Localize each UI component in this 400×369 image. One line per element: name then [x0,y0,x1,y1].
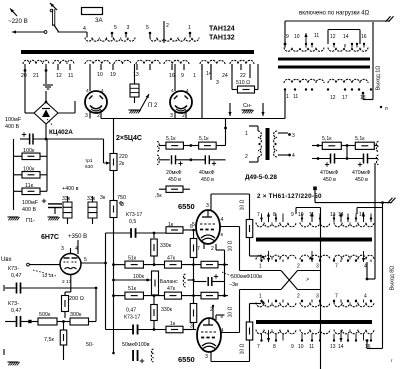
grid stopper lower [201,292,218,299]
svg-text:2: 2 [166,23,169,29]
svg-text:400 В: 400 В [5,124,19,130]
grid stopper upper [201,261,218,268]
cathode stub lower [215,315,217,320]
ТрВ1 top pins [261,214,263,223]
switch В1 upper pole [50,3,57,10]
svg-text:,5к: ,5к [155,193,162,199]
resistor 10 Ω anode upper [246,220,253,238]
svg-text:12 11: 12 11 [42,273,54,279]
svg-text:3: 3 [316,294,319,300]
ТрВ2 top pins [261,300,263,303]
svg-text:510 Ω: 510 Ω [236,80,250,86]
svg-text:5: 5 [84,257,87,263]
cap 470мк 450в a [312,158,331,160]
svg-text:50-: 50- [86,342,94,348]
svg-text:6Н7С: 6Н7С [41,234,59,241]
tube Л5 6550 lower [197,318,221,352]
svg-text:5: 5 [146,25,149,31]
svg-text:П 2: П 2 [148,103,158,109]
svg-text:−3в: −3в [229,282,238,288]
ТрВ2 top winding [256,303,296,307]
Тр1 primary winding b [150,38,199,42]
cathode stub upper [215,244,217,250]
svg-text:3: 3 [127,25,130,31]
Тр2 left wire [284,21,286,48]
Тр2 left down wire [284,90,286,119]
svg-text:9: 9 [286,34,289,40]
B+ vertical to heater rail [225,119,227,146]
ladder wires [13,139,15,210]
svg-text:3А: 3А [95,17,103,24]
svg-text:5,1к: 5,1к [322,136,332,142]
svg-text:11: 11 [309,212,314,218]
svg-text:100мF: 100мF [5,117,22,123]
svg-text:ТАН132: ТАН132 [209,35,235,42]
svg-text:2 17: 2 17 [62,279,72,285]
wire to divider [95,288,97,322]
svg-text:47к: 47к [167,286,176,292]
svg-text:450 в: 450 в [355,177,368,183]
svg-text:4: 4 [221,217,224,223]
svg-text:200 Ω: 200 Ω [69,296,84,302]
ground left [8,216,19,218]
svg-text:3: 3 [190,324,193,330]
cap 40мк 450В [204,155,206,164]
svg-text:6550: 6550 [178,355,195,364]
svg-text:6550: 6550 [178,202,195,211]
tube Л1 5Ц4С [85,91,107,113]
svg-text:9: 9 [181,73,184,79]
arrow to plug upper [10,9,17,17]
svg-text:13: 13 [133,72,139,78]
resistor grid leak upper 220к [190,239,197,258]
svg-text:40мкФ: 40мкФ [199,170,215,176]
svg-text:22: 22 [240,73,246,79]
svg-text:10 Ω: 10 Ω [240,343,246,354]
switch link [52,9,54,26]
svg-text:3: 3 [85,113,88,119]
bridge bottom wire [45,124,47,139]
svg-text:4: 4 [186,88,189,94]
svg-text:750: 750 [117,195,126,201]
svg-text:2×5Ц4С: 2×5Ц4С [116,135,142,142]
svg-text:К73-: К73- [8,266,19,272]
svg-text:5,1к: 5,1к [166,136,176,142]
choke Др1 Д49-5-0.28 [249,125,258,127]
svg-text:5,1к: 5,1к [199,136,209,142]
svg-text:Uвх: Uвх [1,257,12,263]
svg-text:12: 12 [56,73,62,79]
svg-text:2: 2 [211,246,214,252]
svg-text:6: 6 [190,224,193,230]
svg-text:2: 2 [245,154,248,160]
svg-text:33к: 33к [62,196,71,202]
svg-text:Сн-: Сн- [243,103,252,109]
svg-text:ТАН124: ТАН124 [209,26,235,33]
svg-text:7: 7 [197,246,200,252]
grid2 wire upper [220,226,240,228]
svg-text:2: 2 [297,294,300,300]
resistor 330к upper [153,233,155,238]
Тр1 secondary pins and numbers [24,64,26,70]
ТрВ1 bottom pins [261,260,263,263]
svg-text:13: 13 [330,344,336,350]
centertap brackets [296,207,321,209]
svg-text:51к: 51к [128,286,137,292]
cathode down [70,275,72,293]
svg-text:3: 3 [205,354,208,360]
down arrows heater taps [229,103,231,116]
svg-text:5: 5 [114,25,117,31]
svg-text:0,47: 0,47 [126,308,136,314]
svg-text:3: 3 [61,246,64,252]
svg-text:470мкФ: 470мкФ [352,170,370,176]
svg-text:п: п [385,106,388,112]
node 20 wire down [24,71,26,114]
svg-text:1: 1 [193,73,196,79]
resistor 7,5к [60,330,67,345]
cap 470мк 450в b [363,154,365,164]
svg-text:11: 11 [309,344,314,350]
svg-text:+350 В: +350 В [68,234,87,240]
ТрВ2 core [256,320,372,324]
hooks to output transformers [376,142,378,152]
svg-text:4: 4 [364,294,367,300]
lamp Л2 [134,64,136,84]
svg-text:5,1к: 5,1к [355,136,365,142]
svg-text:0,5: 0,5 [129,219,136,225]
svg-text:500мкФ100в: 500мкФ100в [231,274,262,280]
ТрВ1 top winding [256,223,296,227]
tube Л4 6550 upper [196,210,220,244]
svg-text:К73-17: К73-17 [124,315,140,321]
svg-text:16: 16 [169,73,175,79]
resistor 200 Ω [62,296,69,312]
rail centertap [320,208,322,369]
svg-text:Д49-5-0.28: Д49-5-0.28 [245,174,277,181]
B+ rail row [159,145,166,147]
svg-text:400 В: 400 В [22,207,36,213]
heater centertap ground [45,71,47,85]
svg-text:1: 1 [259,264,262,270]
svg-text:0,47: 0,47 [11,273,22,279]
svg-text:Выход 8Ω: Выход 8Ω [390,266,396,291]
svg-text:9: 9 [291,344,294,350]
svg-text:2: 2 [97,113,100,119]
heater rail wire [101,118,285,120]
svg-text:21: 21 [33,73,39,79]
svg-text:11: 11 [293,94,298,100]
svg-text:1: 1 [245,131,248,137]
svg-text:11: 11 [314,33,319,39]
svg-text:3: 3 [216,80,219,86]
wire switch to transformer pin 4 [58,31,88,33]
bridge right wire [58,112,75,114]
svg-text:0,47: 0,47 [11,308,22,314]
switch П2 [134,97,136,103]
svg-text:>: > [306,277,309,283]
pin mark [380,106,382,108]
Тр2 core [278,58,370,61]
svg-text:12: 12 [330,34,336,40]
svg-text:тр1: тр1 [85,158,93,164]
ground cap [48,216,59,218]
svg-text:2 × ТН61-127/220-50: 2 × ТН61-127/220-50 [257,193,322,200]
svg-text:Выход 1Ω: Выход 1Ω [376,66,382,91]
svg-text:П1-: П1- [26,218,35,224]
svg-text:100мF: 100мF [22,200,39,206]
Тр2 bracket 12-14-16 [327,30,329,45]
svg-text:330к: 330к [161,307,173,313]
svg-text:включено по нагрузки 4Ω: включено по нагрузки 4Ω [299,11,370,17]
cap 20мк 450В [159,159,170,161]
svg-text:8: 8 [273,344,276,350]
filter cap С1 100мк [22,134,26,136]
svg-text:3: 3 [316,264,319,270]
svg-text:4: 4 [101,88,104,94]
svg-text:220: 220 [119,154,128,160]
svg-text:11: 11 [68,73,73,79]
svg-text:8: 8 [221,232,224,237]
resistor grid leak lower 220к [190,304,197,323]
balance pot [152,271,159,295]
switch В1 lower pole [54,25,59,32]
svg-text:33к: 33к [87,196,96,202]
bias winding mark [151,349,153,362]
tube Л6 6Н7С [77,240,79,254]
svg-text:20мкФ: 20мкФ [166,170,182,176]
svg-text:14: 14 [338,212,344,218]
svg-text:К73-: К73- [8,301,19,307]
svg-text:7: 7 [335,294,338,300]
cathode cap upper [193,281,206,283]
Тр2 right wire to output [372,22,374,100]
svg-text:1: 1 [286,94,289,100]
svg-text:7,5к: 7,5к [44,337,54,343]
svg-text:12: 12 [330,95,336,101]
svg-text:КЦ402А: КЦ402А [49,129,73,136]
anode wire right [81,262,106,264]
resistor 750 Ω [113,171,115,201]
transformer Тр1 core [21,50,254,54]
svg-text:450 в: 450 в [168,177,181,183]
svg-text:16: 16 [359,212,365,218]
svg-text:330к: 330к [160,243,172,249]
svg-text:470мкФ: 470мкФ [320,170,338,176]
svg-text:4: 4 [171,88,174,94]
svg-text:9: 9 [291,212,294,218]
resistor 330к lower [153,296,155,305]
svg-text:10: 10 [294,34,300,40]
svg-text:14: 14 [343,34,349,40]
diode bridge КЦ402А [25,112,34,114]
svg-text:1: 1 [259,294,262,300]
svg-text:13: 13 [330,212,336,218]
plate wire lower [212,306,214,318]
resistor 510 bias winding [231,64,233,86]
svg-text:10: 10 [97,72,103,78]
terminal and ground bottom [3,285,5,291]
svg-text:7: 7 [257,344,260,350]
Тр1 primary winding a [85,38,135,42]
svg-text:7: 7 [257,212,260,218]
svg-text:10 Ω: 10 Ω [228,240,234,251]
rail from filter to ТрВ1 [374,163,376,279]
resistor 5к [166,186,183,192]
svg-text:4: 4 [292,153,295,159]
svg-text:24: 24 [222,73,228,79]
output wire 8 ohm [315,202,391,204]
svg-text:10: 10 [298,212,304,218]
svg-text:300к: 300к [70,312,82,318]
B+ junction square [313,187,317,191]
tube Л3 5Ц4С [170,91,192,113]
svg-text:2к: 2к [119,161,125,167]
svg-text:3: 3 [292,133,295,139]
ТрВ2 bottom pins [261,334,263,341]
grid2 wire lower [220,332,240,334]
svg-text:16: 16 [361,34,367,40]
svg-text:~220 В: ~220 В [8,18,28,25]
ТрВ1 core [256,238,372,242]
svg-text:3: 3 [206,203,209,209]
plate wire upper [210,194,212,211]
svg-text:50мкФ100в: 50мкФ100в [122,342,150,348]
potentiometer 220 [110,154,117,171]
svg-text:630: 630 [85,164,93,170]
svg-text:450 в: 450 в [323,177,336,183]
svg-text:14: 14 [338,344,344,350]
svg-text:10: 10 [298,344,304,350]
svg-text:10 Ω: 10 Ω [240,199,246,210]
svg-text:4: 4 [75,246,78,252]
Тр2 bottom winding [284,79,324,83]
svg-text:2: 2 [297,264,300,270]
output wire 16 ohm [285,20,390,22]
Тр2 top winding [284,48,324,52]
Тр1 secondary windings [23,60,49,64]
svg-text:16: 16 [365,344,371,350]
svg-text:Баланс: Баланс [160,279,178,285]
X cross wires [240,270,282,272]
short rail [193,230,195,330]
svg-text:7: 7 [335,264,338,270]
winding stub 14 [201,64,203,119]
svg-text:4: 4 [221,328,224,334]
wire AC lower with arrow [12,31,44,33]
svg-text:+400 в: +400 в [62,186,79,192]
cell3 wires [312,145,322,147]
ground П2 [129,109,140,111]
svg-text:4: 4 [83,26,86,32]
Тр1 primary pins [111,33,113,38]
svg-text:100к: 100к [133,274,145,280]
svg-text:10 Ω: 10 Ω [228,306,234,317]
svg-text:17: 17 [342,95,348,101]
ТрВ2 bottom winding [256,330,296,334]
bias rail down [113,218,115,296]
svg-text:К73-17: К73-17 [126,212,142,218]
svg-text:20: 20 [21,73,27,79]
ТрВ1 bottom winding [256,255,296,259]
svg-text:1: 1 [188,25,191,31]
wire B+ down to pot [103,139,105,163]
rectifier output hooks [157,142,159,152]
fuse Пр1 3А [82,8,103,15]
rail from anode to coupling [105,233,107,330]
svg-text:4: 4 [86,88,89,94]
svg-text:450 в: 450 в [201,177,214,183]
resistor 10 Ω anode lower [246,322,253,340]
svg-text:8: 8 [273,212,276,218]
svg-text:500к: 500к [39,312,51,318]
rail output 8ohm tap [381,201,384,204]
svg-text:19: 19 [110,72,116,78]
svg-text:3к: 3к [100,195,106,201]
